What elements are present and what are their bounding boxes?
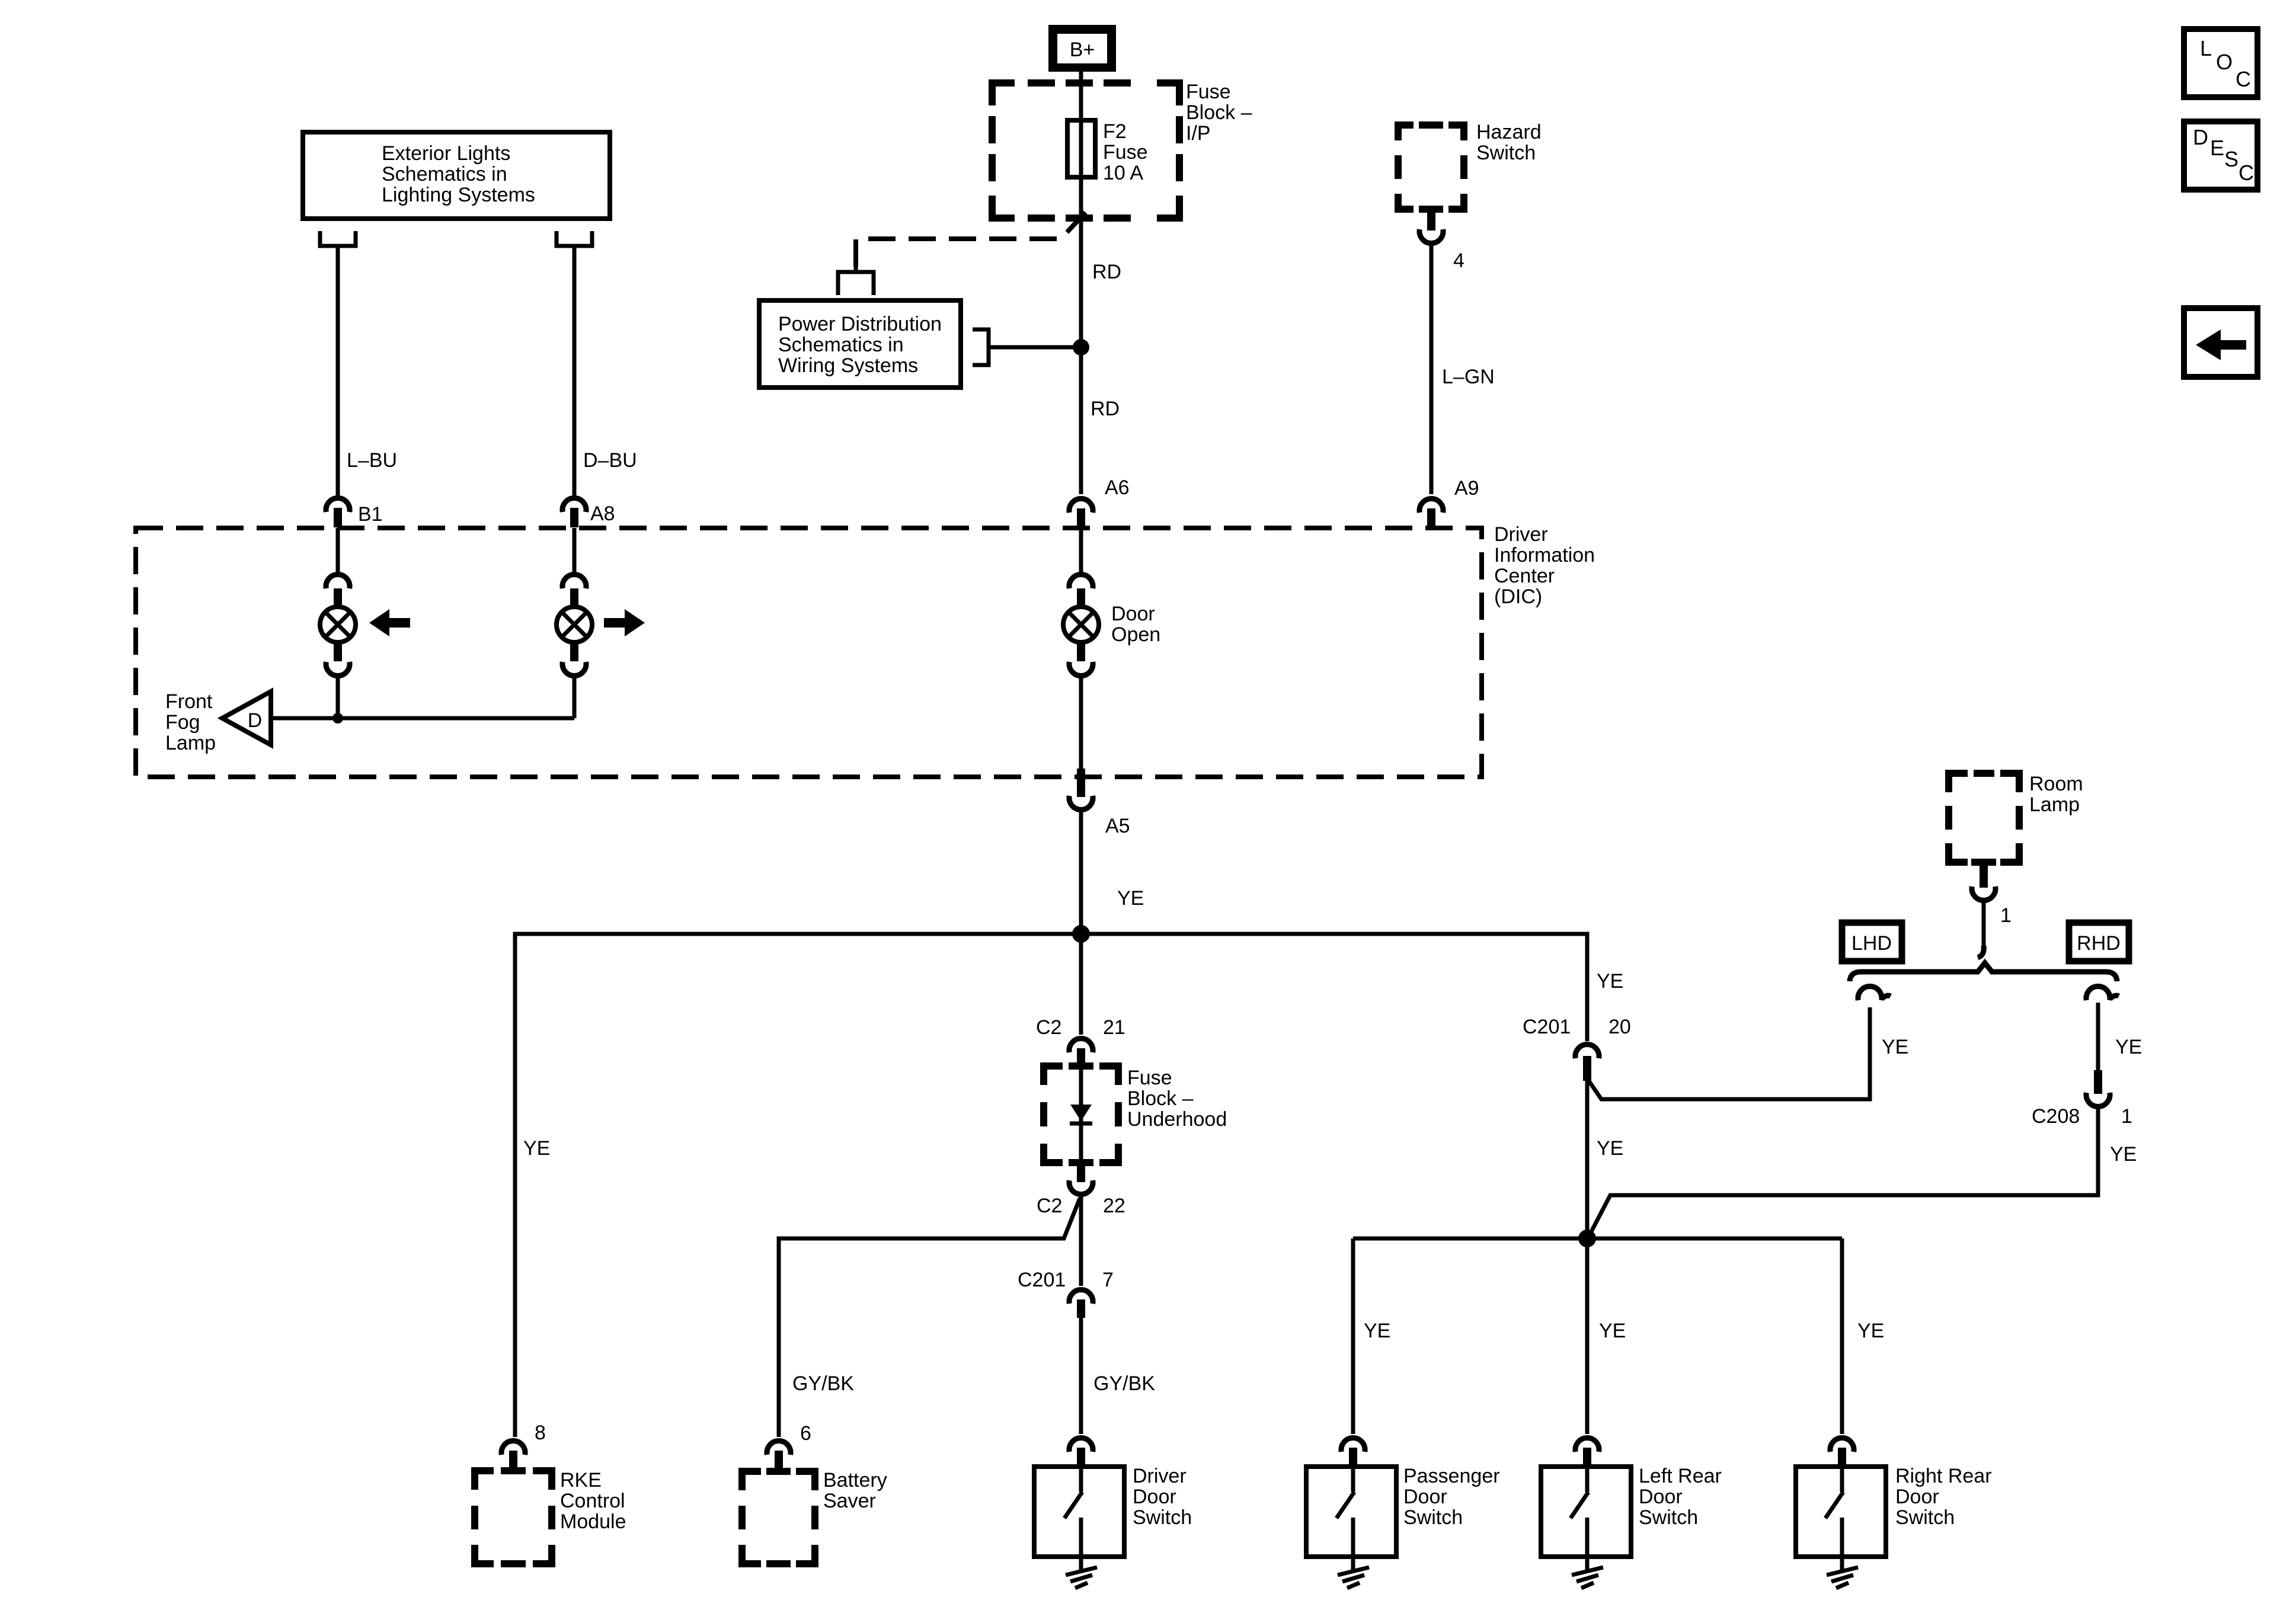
connector Passenger Door Switch [1341,1438,1365,1468]
left arrow icon [369,609,410,636]
svg-text:GY/BK: GY/BK [1093,1372,1155,1395]
connector B1 [326,498,383,527]
connector C208 1 [2032,1070,2132,1128]
wire Room Lamp to brace [1978,900,1984,958]
connector A6 [1069,476,1130,528]
svg-text:YE: YE [2110,1143,2137,1166]
connector 8 RKE [501,1441,525,1472]
svg-text:YE: YE [1599,1320,1626,1342]
svg-text:Right Rear: Right Rear [1895,1465,1992,1487]
svg-text:Hazard: Hazard [1476,121,1542,143]
svg-text:O: O [2216,50,2233,74]
label Fuse Block - I/P [1186,81,1252,145]
svg-text:YE: YE [2115,1036,2142,1058]
svg-text:Schematics in: Schematics in [778,334,904,356]
svg-text:Passenger: Passenger [1403,1465,1500,1487]
diode [1070,1105,1092,1124]
svg-text:C208: C208 [2032,1105,2080,1128]
RKE branch wire labels [535,1422,546,1444]
wire lamp to fog bus [573,676,577,718]
Room Lamp dashed box [1949,773,2083,862]
svg-text:YE: YE [1857,1320,1884,1342]
Exterior Lights reference box [303,132,610,219]
Driver Information Center dashed box [136,523,1595,777]
wire RHD branch to C208 [2098,1003,2142,1071]
wire YE from A5 to junction [1081,809,1144,934]
svg-text:YE: YE [523,1137,550,1160]
connector C201 7 [1018,1269,1114,1318]
svg-text:F2: F2 [1103,120,1127,143]
ground Driver Door Switch [1066,1557,1097,1588]
svg-text:Power Distribution: Power Distribution [778,313,942,335]
svg-text:D: D [2193,125,2208,149]
svg-text:22: 22 [1103,1195,1125,1217]
svg-text:10 A: 10 A [1103,162,1143,184]
svg-text:Open: Open [1111,623,1160,646]
svg-text:Information: Information [1494,544,1595,566]
Hazard Switch dashed box [1398,121,1542,209]
label YE LHD branch [1882,1036,1908,1058]
svg-text:L–BU: L–BU [347,449,397,472]
svg-text:1: 1 [2121,1105,2132,1128]
wire from B+ through fuse to junction [1081,72,1121,347]
svg-text:RKE: RKE [560,1469,602,1491]
svg-text:Room: Room [2029,773,2083,795]
svg-text:Battery: Battery [823,1469,887,1491]
svg-text:Switch: Switch [1476,142,1536,164]
LHD tag box [1842,923,1902,961]
connector Right Rear Door Switch [1830,1438,1854,1468]
Battery Saver dashed box [742,1469,887,1564]
svg-text:Fog: Fog [165,711,200,734]
svg-text:YE: YE [1882,1036,1908,1058]
svg-text:C: C [2239,161,2254,185]
svg-text:A9: A9 [1454,477,1479,500]
svg-text:RHD: RHD [2077,932,2121,955]
back arrow icon [2184,308,2257,377]
svg-text:C2: C2 [1037,1195,1062,1217]
svg-text:I/P: I/P [1186,122,1211,145]
svg-text:Driver: Driver [1133,1465,1187,1487]
svg-text:C201: C201 [1018,1269,1066,1291]
door switch bus wire [1353,1237,1842,1241]
YE bus wire [515,934,1587,1437]
wire lamp to fog junction [336,676,340,718]
dashed reference wire to Power Distribution [856,212,1086,267]
Driver Door Switch [1034,1465,1192,1557]
LHD branch connector [1858,987,1891,1000]
RHD branch connector [2086,987,2119,1000]
svg-text:C201: C201 [1523,1016,1571,1038]
svg-text:YE: YE [1597,1137,1623,1160]
svg-text:Module: Module [560,1510,626,1533]
wire L-BU [338,268,397,495]
right arrow icon [604,609,645,636]
svg-text:Door: Door [1895,1486,1939,1508]
B+ battery terminal [1048,25,1116,72]
wire C201 20 to LHD branch [1587,1007,1870,1099]
connector pin 4 of Hazard Switch [1419,209,1464,272]
connector A5 [1069,769,1130,837]
svg-text:Switch: Switch [1403,1506,1463,1529]
svg-text:4: 4 [1453,249,1464,272]
svg-text:Fuse: Fuse [1103,141,1148,164]
svg-text:20: 20 [1609,1016,1631,1038]
wire through underhood block [1079,1066,1083,1164]
fuse block underhood dashed box [1044,1066,1227,1163]
svg-text:Lighting Systems: Lighting Systems [382,184,535,206]
DESC icon [2184,121,2257,190]
svg-text:B1: B1 [358,503,383,526]
connector pin 1 of Room Lamp [1972,862,2012,927]
fuse block I/P dashed box [992,83,1179,218]
front fog lamp output triangle D [165,690,271,754]
ground Right Rear Door Switch [1827,1557,1858,1588]
svg-text:A5: A5 [1105,815,1130,837]
label YE right branch [1597,970,1623,993]
connector C2 22 [1037,1164,1125,1217]
svg-text:C2: C2 [1036,1016,1061,1039]
svg-text:B+: B+ [1070,39,1095,61]
wire C201 20 down to door switch bus [1587,1078,1623,1238]
svg-text:L: L [2200,36,2212,60]
wire YE to Left Rear Door Switch [1587,1238,1626,1434]
svg-text:Fuse: Fuse [1127,1067,1172,1089]
svg-text:A8: A8 [590,502,615,525]
svg-text:D: D [248,709,263,732]
wire A8 pin to right-turn lamp [573,528,577,577]
svg-text:GY/BK: GY/BK [792,1372,854,1395]
right turn indicator lamp [557,575,592,676]
svg-text:1: 1 [2000,904,2012,927]
Power Distribution reference box [759,300,961,388]
fuse F2 10 A [1067,120,1148,184]
left turn indicator lamp [320,575,356,676]
svg-text:Block –: Block – [1127,1087,1194,1110]
svg-text:YE: YE [1117,887,1144,910]
fork to Exterior Lights box (left, B1 leg) [320,231,356,268]
RKE Control Module dashed box [475,1469,626,1564]
wire C2 22 to C201 7 [1079,1194,1083,1286]
svg-text:YE: YE [1364,1320,1390,1342]
svg-text:6: 6 [800,1422,811,1445]
wire GY/BK to driver door switch [1081,1318,1155,1434]
bracket from Power Distribution box [973,329,989,365]
svg-text:S: S [2224,147,2239,171]
svg-text:L–GN: L–GN [1442,366,1495,388]
wire RD to A6 [1081,347,1120,494]
connector C201 20 [1523,1016,1631,1081]
svg-text:E: E [2210,136,2224,160]
svg-text:RD: RD [1092,261,1121,283]
Passenger Door Switch [1306,1465,1500,1557]
svg-text:Control: Control [560,1490,625,1512]
Right Rear Door Switch [1796,1465,1992,1557]
svg-text:(DIC): (DIC) [1494,585,1542,608]
wire C208 to door switch bus [1589,1106,2137,1236]
junction node [1073,339,1089,356]
wire Door Open lamp to A5 [1079,676,1083,770]
connector 6 Battery Saver [767,1422,811,1472]
svg-text:Left Rear: Left Rear [1639,1465,1722,1487]
svg-text:Switch: Switch [1133,1506,1192,1529]
svg-text:Switch: Switch [1639,1506,1698,1529]
svg-text:Fuse: Fuse [1186,81,1231,103]
svg-text:Wiring Systems: Wiring Systems [778,354,918,377]
wire A6 pin to left-turn lamp [336,528,340,577]
svg-text:7: 7 [1102,1269,1114,1291]
Left Rear Door Switch [1541,1465,1722,1557]
ground Left Rear Door Switch [1572,1557,1603,1588]
svg-text:Block –: Block – [1186,101,1252,124]
svg-text:Lamp: Lamp [2029,793,2080,816]
svg-text:RD: RD [1091,398,1120,420]
svg-text:Schematics in: Schematics in [382,163,507,185]
svg-text:D–BU: D–BU [583,449,637,472]
svg-text:YE: YE [1597,970,1623,993]
LOC icon [2184,29,2257,97]
fork to Power Distribution box [838,258,874,295]
junction node main YE [1072,925,1090,943]
wire L-GN [1431,243,1495,494]
connector C2 21 [1036,1016,1125,1068]
ground Passenger Door Switch [1338,1557,1369,1588]
svg-text:8: 8 [535,1422,546,1444]
fog junction node [332,713,343,724]
wire D-BU [574,268,637,495]
svg-text:Door: Door [1403,1486,1447,1508]
wire A6 pin to Door Open lamp [1079,528,1083,577]
label YE left branch [523,1137,550,1160]
RHD tag box [2069,923,2129,961]
svg-text:Switch: Switch [1895,1506,1955,1529]
selection brace LHD/RHD [1850,963,2117,981]
svg-text:LHD: LHD [1851,932,1892,955]
svg-text:Driver: Driver [1494,523,1548,546]
wire bracket to junction [989,345,1081,350]
wire YE to Right Rear Door Switch [1842,1238,1884,1434]
wire YE to Passenger Door Switch [1353,1238,1390,1434]
fog lamp bus wire [271,716,574,721]
svg-text:21: 21 [1103,1016,1125,1039]
svg-text:Center: Center [1494,565,1555,587]
svg-text:Door: Door [1133,1486,1176,1508]
connector A8 [562,498,615,527]
svg-text:Lamp: Lamp [165,732,216,754]
svg-text:Front: Front [165,690,213,713]
connector Driver Door Switch [1069,1438,1093,1468]
wire junction to C2 21 [1079,934,1083,1035]
svg-text:A6: A6 [1105,476,1130,499]
svg-text:Door: Door [1639,1486,1683,1508]
svg-text:Exterior Lights: Exterior Lights [382,142,510,165]
connector A9 [1419,477,1479,528]
Door Open lamp [1063,575,1160,676]
svg-text:C: C [2236,67,2251,91]
door switch bus junction node [1578,1230,1596,1247]
svg-text:Underhood: Underhood [1127,1108,1227,1131]
svg-text:Door: Door [1111,603,1155,625]
svg-text:Saver: Saver [823,1490,876,1512]
connector Left Rear Door Switch [1575,1438,1599,1468]
battery saver branch wire [779,1198,1080,1437]
fork to Exterior Lights box (right, A8 leg) [557,231,592,268]
